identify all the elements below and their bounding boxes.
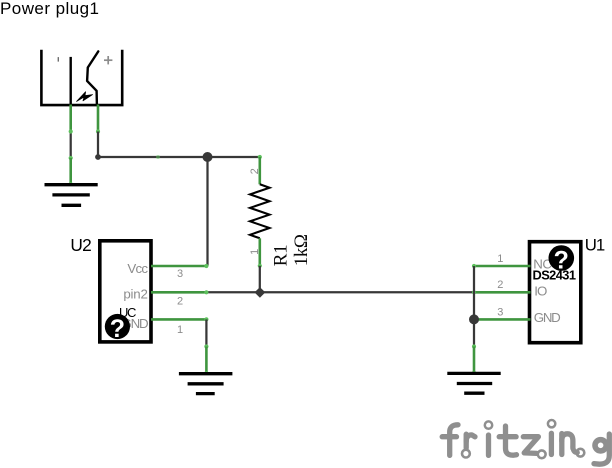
pin leg plug plus <box>97 105 100 132</box>
IC U1 box <box>530 242 581 343</box>
svg-text:DS2431: DS2431 <box>533 268 576 283</box>
ground symbol GND2 <box>179 374 233 394</box>
junction node C <box>469 314 479 324</box>
U1 pin label NC <box>533 256 552 271</box>
svg-text:U1: U1 <box>585 236 605 255</box>
ground GND2 pin leg <box>204 347 208 376</box>
pin number 1 (U1) <box>497 253 503 265</box>
pin number 1 (R1) <box>249 249 261 255</box>
ground GND1 pin leg <box>69 158 73 186</box>
U1 pin label GND <box>534 310 560 325</box>
wire resistor bottom to node B <box>259 266 261 293</box>
resistor R1 top leg (pin 2) <box>258 155 262 184</box>
svg-text:2: 2 <box>497 279 503 291</box>
ground symbol GND1 <box>45 185 98 206</box>
U2 pin 3 leg (Vcc) <box>151 264 208 268</box>
junction node A <box>203 152 213 162</box>
wire minus to ground <box>69 129 73 160</box>
U2 title UC <box>119 305 136 320</box>
U2 pin label pin2 <box>123 287 147 302</box>
U1 pin 3 leg (GND) <box>474 318 531 321</box>
svg-text:IO: IO <box>534 284 547 299</box>
U2 pin label Vcc <box>127 261 148 276</box>
pin number 2 (U1) <box>497 279 503 291</box>
U2 pin 2 leg (pin2) <box>151 290 208 294</box>
pin leg plug minus <box>69 105 72 132</box>
U2 pin label GND <box>121 316 148 331</box>
U1 unknown-part icon <box>549 245 575 274</box>
switch arrow bolt <box>77 92 93 102</box>
svg-text:3: 3 <box>177 268 183 280</box>
pin number 3 (U1) <box>497 307 503 319</box>
svg-text:1: 1 <box>497 253 503 265</box>
svg-text:U2: U2 <box>70 235 91 255</box>
U2 pin 1 leg (GND) <box>151 317 208 321</box>
wire IO bus U2.pin2 to U1.IO <box>206 291 474 293</box>
resistor R1 bottom leg (pin 1) <box>258 238 262 268</box>
resistor R1 body <box>250 184 270 238</box>
label U2 <box>70 235 91 255</box>
power plug switch zigzag (positive pin) <box>87 51 98 105</box>
pin number 2 (R1) <box>249 168 261 174</box>
svg-text:?: ? <box>110 315 125 343</box>
value 1kΩ <box>291 234 312 266</box>
svg-text:1: 1 <box>249 249 261 255</box>
label Power plug1 <box>0 0 99 18</box>
svg-text:Power plug1: Power plug1 <box>0 0 99 18</box>
wire plus to node A <box>95 129 207 160</box>
U2 unknown-part icon <box>105 314 130 343</box>
svg-text:3: 3 <box>497 307 503 319</box>
svg-text:1kΩ: 1kΩ <box>291 234 312 266</box>
plus sign <box>104 56 112 64</box>
wire U2.GND to ground <box>204 319 208 348</box>
U1 pin 2 leg (IO) <box>472 290 531 294</box>
svg-text:1: 1 <box>177 324 183 336</box>
ground symbol GND3 <box>447 373 500 393</box>
wire node A down to U2 Vcc <box>206 157 208 266</box>
power plug negative terminal line <box>69 57 71 105</box>
U1 pin label IO <box>534 284 547 299</box>
svg-text:pin2: pin2 <box>123 287 147 302</box>
svg-text:Vcc: Vcc <box>127 261 148 276</box>
power plug PLUG1 outline <box>41 50 122 105</box>
svg-text:2: 2 <box>249 168 261 174</box>
svg-text:2: 2 <box>177 296 183 308</box>
label U1 <box>585 236 605 255</box>
ground GND3 pin leg <box>472 344 476 374</box>
minus sign <box>57 57 59 62</box>
wire node A to resistor top <box>208 156 260 158</box>
pin number 3 (U2) <box>177 268 183 280</box>
U1 pin 1 leg (NC) <box>472 264 531 268</box>
pin number 2 (U2) <box>177 296 183 308</box>
svg-text:GND: GND <box>534 310 560 325</box>
wire U1 NC/GND vertical <box>473 266 475 347</box>
U1 title DS2431 <box>533 268 576 283</box>
fritzing logo <box>442 420 609 464</box>
IC U2 box <box>100 241 151 342</box>
svg-text:R1: R1 <box>271 245 292 267</box>
junction node B <box>255 287 266 298</box>
label R1 <box>271 245 292 267</box>
pin number 1 (U2) <box>177 324 183 336</box>
